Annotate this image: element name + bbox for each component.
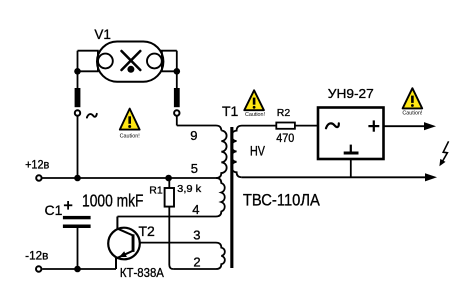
svg-text:R2: R2 xyxy=(277,107,291,119)
svg-text:3,9 k: 3,9 k xyxy=(177,183,202,195)
capacitor C1 xyxy=(63,216,91,228)
T1 primary winding 5-4 xyxy=(216,178,225,217)
svg-text:+12в: +12в xyxy=(25,160,49,172)
wire pin 2 line xyxy=(173,268,216,270)
svg-text:T1: T1 xyxy=(222,103,239,119)
wire HV+ output xyxy=(384,125,426,127)
wire right terminal to pin 9 xyxy=(176,116,178,126)
terminal circle right xyxy=(174,110,179,115)
svg-text:КТ-838А: КТ-838А xyxy=(120,265,164,280)
caution triangle 3 xyxy=(402,88,423,116)
junction dot C1 bottom xyxy=(74,266,81,273)
svg-text:-12в: -12в xyxy=(25,251,48,263)
T1 secondary winding HV xyxy=(231,126,276,178)
label ~ (AC) xyxy=(87,114,97,118)
terminal +12v xyxy=(36,175,41,180)
resistor R2 xyxy=(276,123,295,129)
junction dot C1 top xyxy=(74,175,81,182)
svg-text:5: 5 xyxy=(191,161,198,176)
svg-text:R1: R1 xyxy=(149,184,163,196)
svg-text:ТВС-110ЛА: ТВС-110ЛА xyxy=(243,191,320,209)
tube V1 cathode dot xyxy=(127,66,134,73)
multiplier + output symbol xyxy=(368,120,379,131)
tube V1 body xyxy=(97,42,163,82)
transistor Q1 emitter xyxy=(116,251,132,269)
svg-text:V1: V1 xyxy=(94,27,111,42)
wire C1 bottom xyxy=(77,228,79,269)
wire V1 right vertical xyxy=(176,51,178,89)
svg-text:Caution!: Caution! xyxy=(402,110,423,116)
tube V1 X mark xyxy=(122,51,141,70)
wire +12 rail / pin 5 line xyxy=(42,177,216,179)
terminal -12v xyxy=(36,266,41,271)
fuse bar right xyxy=(174,88,180,107)
wire HV return rail xyxy=(242,176,426,178)
transistor Q1 collector xyxy=(117,217,132,236)
multiplier U1 box xyxy=(318,108,384,160)
svg-text:Caution!: Caution! xyxy=(120,133,141,139)
wire R1 bottom to pin 2 xyxy=(169,207,173,269)
wire pin 9 line xyxy=(177,126,222,131)
wire R2 to multiplier xyxy=(295,125,318,127)
tube V1 left electrode circle xyxy=(98,54,113,69)
multiplier ground symbol xyxy=(344,145,359,155)
transistor Q1 circle xyxy=(108,228,140,260)
wire pin 3 / base line xyxy=(134,242,216,244)
svg-text:УН9-27: УН9-27 xyxy=(328,86,374,101)
junction dot V1 right xyxy=(174,68,181,75)
wire pin 4 line xyxy=(117,216,216,218)
transistor Q1 base bar xyxy=(132,234,135,252)
svg-text:9: 9 xyxy=(190,128,197,143)
wire V1 left electrode loop xyxy=(78,51,98,72)
multiplier ~ input symbol xyxy=(326,123,339,128)
arrowhead HV return xyxy=(425,173,437,181)
svg-text:3: 3 xyxy=(193,228,200,243)
fuse bar left xyxy=(75,88,81,107)
caution triangle 1 xyxy=(120,109,141,140)
junction dot R1 top xyxy=(165,175,172,182)
wire V1 left vertical xyxy=(77,51,79,89)
caution triangle 2 xyxy=(244,90,265,118)
svg-text:4: 4 xyxy=(192,202,199,217)
label C1 plus xyxy=(64,201,72,210)
junction dot V1 left xyxy=(74,68,81,75)
svg-text:HV: HV xyxy=(250,144,265,159)
svg-text:Caution!: Caution! xyxy=(245,112,266,118)
svg-text:T2: T2 xyxy=(139,223,156,239)
wire V1 right electrode loop xyxy=(162,51,177,72)
wire R1 top xyxy=(168,178,170,188)
svg-text:1000 mkF: 1000 mkF xyxy=(82,190,144,210)
T1 primary winding 9-5 xyxy=(216,131,227,179)
T1 feedback winding 3-2 xyxy=(216,243,225,269)
arrowhead HV+ output xyxy=(424,122,436,130)
wire multiplier ground stem xyxy=(350,159,352,177)
T1 core xyxy=(230,127,233,268)
transistor Q1 emitter arrow xyxy=(119,251,127,257)
svg-text:470: 470 xyxy=(276,133,294,145)
svg-text:C1: C1 xyxy=(45,202,63,218)
tube V1 right electrode circle xyxy=(147,54,162,69)
wire -12 rail xyxy=(42,268,116,270)
svg-text:2: 2 xyxy=(193,255,200,270)
resistor R1 xyxy=(165,188,174,207)
wire left vertical to +12 rail xyxy=(77,116,79,178)
terminal circle AC left xyxy=(75,110,80,115)
lightning bolt xyxy=(439,141,448,166)
